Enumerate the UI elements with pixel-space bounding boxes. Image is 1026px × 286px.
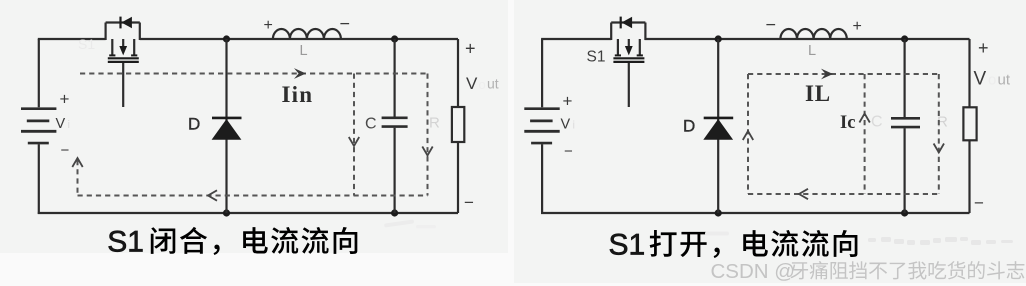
current arrow up (Ic) [859, 114, 869, 123]
battery V label [561, 117, 575, 133]
svg-text:CSDN @: CSDN @ [711, 260, 796, 283]
svg-text:D: D [188, 115, 200, 134]
dashed current path: left vertical along diode [747, 74, 749, 194]
svg-text:S1: S1 [609, 228, 646, 261]
label Vout [466, 74, 499, 93]
svg-text:D: D [683, 117, 695, 136]
current arrow right (Iin) [294, 68, 306, 79]
svg-text:L: L [300, 43, 308, 59]
node: capacitor junction top [901, 35, 908, 42]
svg-text:R: R [429, 115, 440, 132]
svg-text:S1: S1 [107, 225, 144, 258]
current arrow down (R branch) [422, 147, 432, 156]
current arrow up (diode branch) [743, 131, 753, 140]
svg-text:+: + [60, 90, 70, 109]
svg-text:−: − [564, 143, 573, 160]
svg-text:V: V [466, 74, 478, 93]
battery V label [56, 116, 70, 132]
current arrow left (bottom) [799, 189, 808, 199]
inductor L [780, 29, 846, 39]
svg-text:Ic: Ic [840, 113, 855, 133]
caption: S1 closed, current direction [107, 225, 357, 258]
node: diode junction bottom [223, 209, 230, 216]
caption: S1 open, current direction [609, 228, 858, 261]
ghost smudge left caption area [384, 219, 436, 228]
dashed current path: bottom segment [748, 193, 939, 195]
wire diode branch vertical [717, 39, 719, 213]
current arrow down (R branch) [934, 144, 944, 153]
ghost smudge right caption comma area [705, 232, 729, 236]
diode D (freewheeling) [703, 118, 733, 140]
dashed current path: right vertical (R branch) [938, 74, 940, 194]
current arrow down (C branch) [349, 137, 359, 146]
wire top rail from switch to right corner [645, 38, 970, 40]
diode D (freewheeling) [212, 118, 242, 140]
node: capacitor junction top [391, 35, 398, 42]
battery Vin [524, 39, 559, 214]
dashed current path: return to battery vertical [77, 160, 79, 196]
node: diode junction bottom [715, 209, 722, 216]
svg-text:C: C [365, 115, 377, 132]
svg-text:+: + [978, 38, 989, 58]
svg-text:i: i [573, 120, 575, 132]
svg-text:−: − [974, 194, 984, 213]
wire top rail left segment [38, 38, 106, 40]
dashed current path: top segment [80, 73, 428, 75]
svg-text:+: + [264, 17, 273, 34]
svg-text:+: + [465, 39, 476, 59]
svg-text:−: − [61, 142, 70, 159]
svg-text:V: V [561, 117, 571, 133]
resistor R (load) [963, 39, 976, 213]
svg-text:+: + [563, 92, 573, 111]
svg-text:L: L [808, 43, 816, 59]
battery Vin [21, 39, 56, 214]
wire top rail from switch to right corner [140, 38, 458, 40]
current arrow right (IL) [821, 69, 833, 80]
watermark CSDN [711, 260, 1025, 283]
svg-text:i: i [68, 119, 70, 131]
switch S1 MOSFET left (label erased) [106, 17, 140, 107]
right circuit: buck converter, S1 open [524, 15, 1011, 217]
node: switch-diode junction top [223, 35, 230, 42]
dashed current path: bottom segment [78, 195, 428, 197]
dashed current path: capacitor branch vertical [864, 74, 866, 194]
current arrow left (bottom) [208, 190, 217, 200]
svg-text:−: − [766, 15, 777, 35]
svg-text:−: − [340, 14, 351, 34]
svg-text:S1: S1 [587, 49, 606, 66]
dashed current path: top segment [748, 73, 939, 75]
node: capacitor junction bottom [901, 209, 908, 216]
svg-text:−: − [464, 193, 474, 212]
node: switch-diode junction top [715, 35, 722, 42]
ghost watermark remnant row [868, 237, 1013, 245]
left circuit: buck converter, S1 closed [21, 14, 499, 217]
label Vout [974, 69, 1011, 90]
svg-text:o: o [988, 72, 996, 89]
svg-text:V: V [56, 116, 66, 132]
svg-text:IL: IL [805, 81, 831, 106]
node: capacitor junction bottom [391, 209, 398, 216]
wire top rail left segment [541, 38, 611, 40]
wire bottom rail [541, 212, 969, 214]
svg-text:V: V [974, 69, 987, 90]
capacitor C [891, 39, 920, 213]
svg-text:ut: ut [487, 76, 499, 92]
wire diode branch vertical [225, 39, 227, 213]
capacitor C [382, 39, 408, 213]
current arrow up (into battery) [72, 158, 82, 167]
resistor R (load) [452, 39, 464, 213]
inductor L [273, 29, 341, 39]
svg-text:ut: ut [998, 72, 1011, 89]
switch S1 MOSFET right [611, 17, 645, 107]
svg-text:+: + [853, 18, 862, 35]
svg-text:C: C [871, 114, 883, 131]
wire bottom rail [38, 212, 458, 214]
dashed current path: right vertical (R branch) [427, 74, 429, 196]
svg-text:S1: S1 [78, 36, 95, 52]
svg-text:Iin: Iin [282, 82, 314, 107]
dashed current path: capacitor branch vertical [353, 74, 355, 196]
svg-text:o: o [479, 77, 486, 92]
